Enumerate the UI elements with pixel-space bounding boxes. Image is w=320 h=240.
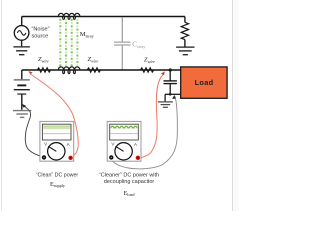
wire right resistor to ground xyxy=(184,40,186,47)
inductor L2 secondary winding xyxy=(58,67,80,74)
black probe arrow 2 xyxy=(172,95,175,99)
page edge left xyxy=(1,0,3,211)
black probe wire 1 xyxy=(24,106,44,158)
multimeter 1 clean flat trace xyxy=(43,126,70,129)
capacitor C_stray top lead (gray) xyxy=(121,17,123,42)
black probe wire 2 xyxy=(111,96,177,169)
multimeter 1 needle xyxy=(48,146,56,151)
battery E_supply xyxy=(14,80,30,94)
resistor Z_wire 3 xyxy=(140,68,153,72)
multimeter 2 dial xyxy=(115,143,132,160)
svg-text:“Cleaner” DC power with: “Cleaner” DC power with xyxy=(99,173,159,179)
capacitor C_stray plates xyxy=(114,42,131,45)
multimeter 2 display xyxy=(110,124,139,140)
svg-text:“Noise”: “Noise” xyxy=(32,27,50,33)
mutual coupling M flux dots xyxy=(59,19,78,67)
red probe arrow 1 xyxy=(29,71,33,74)
multimeter 1 dial xyxy=(48,143,65,160)
AC source V1 Noise source xyxy=(14,26,29,41)
red probe arrow 2 xyxy=(161,71,165,75)
multimeter 2 display baseline xyxy=(110,133,137,135)
junction node cap tee xyxy=(169,93,172,96)
ground noise source xyxy=(13,47,30,55)
resistor R vertical xyxy=(181,22,188,39)
decoupling capacitor plates xyxy=(164,81,177,84)
multimeter 1 body xyxy=(40,121,74,161)
wire top rail xyxy=(22,16,185,18)
inductor L1 primary winding xyxy=(58,13,80,19)
multimeter 1 display xyxy=(42,124,71,140)
multimeter 2 body xyxy=(107,121,141,161)
load box xyxy=(181,67,227,98)
svg-text:decoupling capacitor: decoupling capacitor xyxy=(104,179,155,185)
ground decoupling capacitor xyxy=(158,102,173,107)
red probe wire 1 xyxy=(31,74,79,158)
wire tee corner down to ground xyxy=(164,94,166,101)
red probe wire 2 xyxy=(138,75,163,158)
wire bottom rail xyxy=(22,69,181,71)
multimeter 2 black terminal xyxy=(109,155,113,159)
ground battery xyxy=(13,111,31,118)
wire bottom rail corner down to battery xyxy=(21,70,23,80)
black probe arrow 1 xyxy=(22,104,26,108)
page edge right xyxy=(233,0,239,211)
resistor Z_wire 2 xyxy=(87,68,100,72)
svg-text:“Clean” DC power: “Clean” DC power xyxy=(36,173,79,179)
wire AC source to ground xyxy=(21,40,23,46)
multimeter 2 red terminal xyxy=(136,156,140,160)
wire top rail to noise source xyxy=(21,17,23,26)
resistor Z_wire 1 xyxy=(37,68,50,72)
wire cap tee to load xyxy=(165,93,181,95)
multimeter 1 red terminal xyxy=(68,156,72,160)
decoupling capacitor top lead xyxy=(169,70,171,81)
decoupling capacitor bottom lead xyxy=(169,84,171,95)
multimeter 2 needle xyxy=(116,146,124,151)
multimeter 1 display baseline xyxy=(43,133,70,135)
wire top rail corner to right resistor xyxy=(184,17,186,23)
ground right resistor xyxy=(176,47,194,55)
svg-text:source: source xyxy=(32,34,49,40)
multimeter 2 ripple trace xyxy=(111,125,138,129)
capacitor C_stray bottom lead xyxy=(121,45,123,70)
multimeter 1 black terminal xyxy=(42,155,46,159)
junction node decoupling cap top xyxy=(169,68,172,71)
wire battery to ground xyxy=(21,94,23,110)
svg-text:Load: Load xyxy=(195,78,214,87)
